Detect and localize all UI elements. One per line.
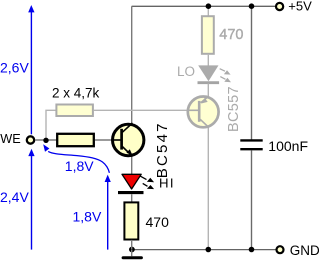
svg-text:BC547: BC547 <box>154 121 171 178</box>
node junction bottom middle <box>206 247 212 253</box>
svg-text:470: 470 <box>146 214 170 230</box>
wire LED HI to resistor 470 <box>131 194 133 202</box>
svg-text:1,8V: 1,8V <box>65 158 94 174</box>
svg-text:WE: WE <box>0 132 20 146</box>
annotation arrow 2,6V <box>0 5 35 134</box>
wire LED LO to BC557 emitter <box>207 84 209 97</box>
transistor Q2 BC557 (ghost) <box>188 86 242 132</box>
node junction bottom right <box>249 247 255 253</box>
wire resistor to BC547 base <box>95 139 128 141</box>
wire BC557 collector drop to bottom rail <box>207 126 209 250</box>
wire capacitor bottom lead <box>251 151 253 250</box>
transistor Q1 BC547 <box>113 121 172 178</box>
wire WE to node A <box>36 139 59 141</box>
terminal GND <box>277 243 320 258</box>
resistor 4,7k ghost (upper) <box>56 105 93 117</box>
wire capacitor top lead <box>251 6 253 139</box>
terminal WE <box>0 132 34 146</box>
terminal +5V <box>276 0 312 14</box>
svg-text:470: 470 <box>219 27 243 43</box>
LED HI (red) <box>118 174 175 192</box>
svg-text:LO: LO <box>177 64 195 79</box>
wire BC547 emitter to LED HI <box>131 156 133 174</box>
node junction top right <box>249 3 255 9</box>
annotation arrow 2,4V <box>0 149 35 250</box>
svg-text:1,8V: 1,8V <box>73 208 102 224</box>
svg-text:100nF: 100nF <box>268 138 308 154</box>
wire resistor 470 to bottom rail <box>131 240 133 250</box>
label 2 x 4,7k <box>52 86 100 101</box>
svg-text:GND: GND <box>290 243 319 258</box>
annotation curved arrow 1,8V to node A <box>43 144 109 174</box>
wire +5V top rail <box>132 5 276 7</box>
wire ghost resistor to BC557 base <box>94 109 198 111</box>
resistor 470 ghost <box>202 16 244 54</box>
svg-text:BC557: BC557 <box>226 86 242 132</box>
resistor 4,7k (lower, active) <box>57 134 94 146</box>
svg-text:+5V: +5V <box>288 0 312 14</box>
LED LO light arrows <box>220 69 231 83</box>
wire collector drop to BC547 <box>131 6 133 125</box>
svg-text:2,4V: 2,4V <box>0 189 29 205</box>
resistor 470 (active) <box>124 202 169 239</box>
wire bottom GND rail <box>132 249 276 251</box>
ground symbol <box>123 250 141 258</box>
node junction bottom left <box>129 247 135 253</box>
node A junction at base splitter <box>43 138 48 143</box>
svg-text:2 x 4,7k: 2 x 4,7k <box>52 86 100 101</box>
LED HI light arrows <box>140 176 154 189</box>
wire ghost resistor top lead <box>207 6 209 16</box>
annotation arrow 1,8V (emitter level) <box>73 175 111 250</box>
node junction top left <box>206 3 212 9</box>
capacitor C1 100nF <box>240 138 308 154</box>
LED LO (ghost) <box>177 64 219 83</box>
svg-text:HI: HI <box>159 176 175 191</box>
svg-text:2,6V: 2,6V <box>0 59 29 75</box>
wire ghost resistor to LED LO <box>207 55 209 66</box>
wire node A up to ghost resistor <box>46 110 56 140</box>
